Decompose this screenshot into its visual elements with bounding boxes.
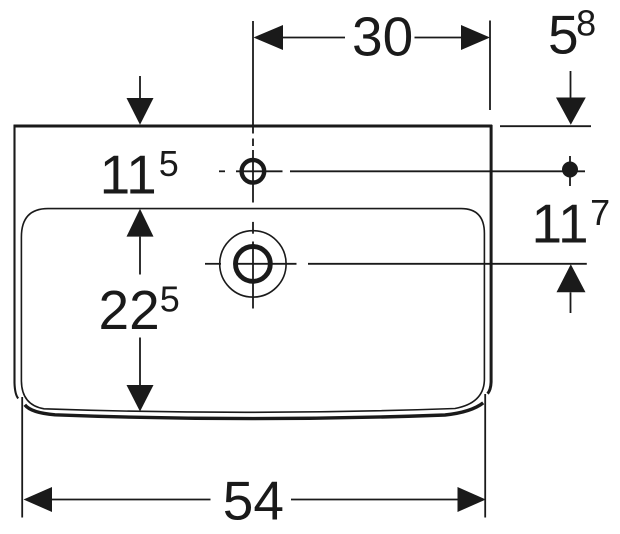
- drain horizontal centerline main: [234, 263, 297, 265]
- dim 11.5 down arrowhead: [127, 98, 154, 125]
- basin inner bowl outline: [21, 209, 484, 413]
- dim 30 right extension line: [489, 21, 491, 111]
- dim 30 left arrowhead: [254, 25, 284, 50]
- drain inner circle: [236, 247, 271, 282]
- drain horizontal centerline long segment to right: [308, 263, 587, 265]
- drain outer circle: [220, 231, 286, 297]
- dim 30 right arrowhead: [461, 25, 490, 50]
- dim 11.7 up arrowhead: [557, 264, 586, 292]
- dim 54 right extension line: [484, 394, 486, 518]
- svg-text:115: 115: [100, 143, 179, 206]
- dim 30 line left part: [282, 37, 345, 39]
- dim 54 left extension line: [21, 397, 23, 518]
- dim 22.5 down-arrow tail: [139, 338, 141, 386]
- dim 11.5 up-arrow tail: [139, 237, 141, 275]
- drain horizontal centerline dash: [205, 263, 221, 265]
- faucet horizontal centerline dash: [219, 170, 225, 172]
- dim 54 left arrowhead: [24, 487, 53, 512]
- svg-text:54: 54: [223, 470, 284, 532]
- dim 22.5 down arrowhead: [127, 385, 154, 412]
- drain vertical centerline dash: [252, 222, 254, 234]
- faucet vertical centerline / 30-dim extension: [252, 21, 254, 134]
- drain vertical centerline main: [252, 242, 254, 309]
- dim 54 line left part: [51, 499, 211, 501]
- basin outer right edge: [488, 125, 492, 394]
- dim 54 right arrowhead: [458, 487, 486, 512]
- dim 5.8 down-arrow tail: [570, 71, 572, 98]
- svg-text:58: 58: [548, 3, 596, 66]
- faucet vertical centerline main: [252, 150, 254, 203]
- svg-text:30: 30: [352, 6, 413, 68]
- dim 11.7 reference dot: [562, 162, 578, 178]
- faucet horizontal centerline long segment to right: [290, 170, 585, 172]
- faucet vertical centerline dash: [252, 139, 254, 147]
- dim 30 line right part: [415, 37, 463, 39]
- faucet horizontal centerline main: [236, 170, 283, 172]
- basin outer top edge: [14, 125, 493, 128]
- basin outer left edge: [15, 125, 19, 398]
- dim 54 line right part: [291, 499, 458, 501]
- dim 5.8 reference line at basin top level: [500, 125, 591, 127]
- faucet hole circle: [242, 160, 265, 183]
- dim 11.7 up-arrow tail: [570, 292, 572, 313]
- svg-text:117: 117: [532, 192, 611, 255]
- dim 5.8 down arrowhead: [556, 98, 586, 125]
- basin outer bottom edge: [25, 403, 483, 419]
- svg-text:225: 225: [99, 279, 180, 342]
- dim 11.7 dot tick: [569, 156, 571, 186]
- dim 11.5 down-arrow tail: [139, 76, 141, 98]
- dim 11.5 up arrowhead: [127, 209, 154, 237]
